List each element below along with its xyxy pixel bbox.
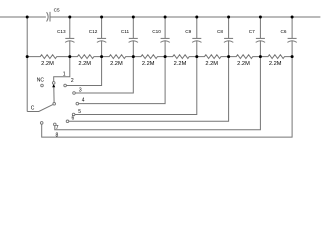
- svg-text:C10: C10: [152, 29, 161, 34]
- svg-text:8: 8: [56, 132, 59, 138]
- svg-text:2.2M: 2.2M: [78, 61, 91, 67]
- resistor R4 2.2M: [133, 55, 165, 59]
- svg-text:C9: C9: [185, 29, 191, 34]
- node top col 1: [68, 16, 71, 19]
- svg-text:C5: C5: [54, 8, 60, 13]
- wire node 1 to contact 1: [54, 57, 70, 82]
- svg-text:2.2M: 2.2M: [237, 61, 250, 67]
- switch contact 8: [40, 122, 43, 125]
- svg-text:C7: C7: [249, 29, 255, 34]
- node input top: [26, 16, 29, 19]
- svg-text:4: 4: [82, 97, 85, 103]
- capacitor C5: [47, 12, 49, 21]
- svg-text:5: 5: [78, 109, 81, 115]
- resistor R1 2.2M: [27, 55, 70, 59]
- node top col 3: [132, 16, 135, 19]
- resistor R5 2.2M: [165, 55, 197, 59]
- switch contact 7: [54, 123, 57, 126]
- svg-text:C: C: [31, 105, 35, 111]
- node top col 7: [259, 16, 262, 19]
- switch contact 6: [66, 120, 69, 123]
- wire node 6 to contact 6: [69, 57, 229, 122]
- switch contact 2: [64, 84, 67, 87]
- svg-text:2.2M: 2.2M: [41, 61, 54, 67]
- node bus col 2: [100, 55, 103, 58]
- capacitor C10: [164, 17, 166, 38]
- svg-text:C11: C11: [121, 29, 130, 34]
- wire node 3 to contact 3: [75, 57, 133, 93]
- switch contact NC: [41, 84, 44, 87]
- wire switch common C: [27, 104, 53, 111]
- svg-text:NC: NC: [37, 78, 45, 84]
- switch arm: [53, 87, 55, 103]
- resistor R8 2.2M: [260, 55, 292, 59]
- node bus col 5: [195, 55, 198, 58]
- svg-text:7: 7: [56, 125, 59, 131]
- node top col 4: [164, 16, 167, 19]
- resistor R7 2.2M: [229, 55, 261, 59]
- switch arm arrowhead: [52, 84, 55, 87]
- node bus col 3: [132, 55, 135, 58]
- svg-text:3: 3: [79, 87, 82, 93]
- svg-text:C6: C6: [281, 29, 287, 34]
- svg-text:C13: C13: [57, 29, 66, 34]
- svg-text:2: 2: [71, 78, 74, 84]
- svg-text:C12: C12: [89, 29, 98, 34]
- wire node 2 to contact 2: [66, 57, 101, 86]
- switch contact 1: [52, 82, 55, 85]
- svg-text:2.2M: 2.2M: [205, 61, 218, 67]
- wire top bus left: [0, 16, 46, 18]
- node bus col 8: [291, 55, 294, 58]
- capacitor C12: [101, 17, 103, 38]
- node bus col 1: [68, 55, 71, 58]
- wire node 4 to contact 4: [79, 57, 166, 104]
- node top col 8: [291, 16, 294, 19]
- node bus col 7: [259, 55, 262, 58]
- node input bus: [26, 55, 29, 58]
- resistor R2 2.2M: [70, 55, 102, 59]
- node top col 6: [227, 16, 230, 19]
- svg-text:2.2M: 2.2M: [174, 61, 187, 67]
- switch contact 3: [73, 92, 76, 95]
- capacitor C6: [291, 17, 293, 38]
- node top col 2: [100, 16, 103, 19]
- switch pivot: [53, 103, 56, 106]
- node bus col 6: [227, 55, 230, 58]
- wire node 7 to contact 7: [55, 57, 261, 130]
- svg-text:6: 6: [72, 116, 75, 122]
- resistor R3 2.2M: [102, 55, 134, 59]
- svg-text:2.2M: 2.2M: [142, 61, 155, 67]
- svg-text:C8: C8: [217, 29, 223, 34]
- wire left input vertical: [26, 17, 28, 112]
- capacitor C7: [259, 17, 261, 38]
- node bus col 4: [164, 55, 167, 58]
- switch contact 5: [72, 113, 75, 116]
- svg-text:2.2M: 2.2M: [110, 61, 123, 67]
- capacitor C8: [228, 17, 230, 38]
- wire top bus right: [50, 16, 320, 18]
- capacitor C9: [196, 17, 198, 38]
- svg-text:2.2M: 2.2M: [269, 61, 282, 67]
- svg-text:1: 1: [63, 71, 66, 77]
- capacitor C11: [132, 17, 134, 38]
- node top col 5: [195, 16, 198, 19]
- wire node 8 to contact 8: [42, 57, 292, 138]
- switch contact 4: [76, 102, 79, 105]
- resistor R6 2.2M: [197, 55, 229, 59]
- capacitor C13: [69, 17, 71, 38]
- wire node 5 to contact 5: [75, 57, 197, 115]
